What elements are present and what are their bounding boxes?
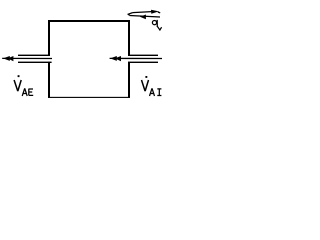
right arrow shaft [110,57,162,59]
right arrowhead barb 1 [110,56,117,61]
heat exchange loop arrow q [128,12,160,17]
control volume box [48,20,130,98]
letter V (AE) [14,80,21,91]
subscript A (AI) [150,88,155,96]
left duct top line [18,55,50,56]
subscript E (AE) [29,89,33,96]
loop bottom shaft [130,16,160,18]
left arrowhead barb 2 [8,56,14,61]
loop overshoot tick [158,11,160,14]
left duct bottom line [18,62,52,63]
subscript I (AI) [157,89,161,96]
box right wall lower segment [128,62,130,98]
left duct (exhaust opening) [18,55,52,63]
loop right arrowhead [151,10,159,14]
dot over V (AE) [18,75,20,77]
subscript A (AE) [22,88,27,96]
box left wall lower segment [48,62,50,98]
right duct top line [128,55,158,56]
right duct bottom line [128,62,158,63]
loop left arrowhead [140,15,146,20]
label q [152,20,161,30]
label V_AE [14,75,33,96]
box bottom edge [48,97,130,98]
right arrowhead barb 2 [115,56,121,61]
box right wall upper segment [128,20,130,56]
loop top shaft [133,12,152,13]
label V_AI [142,76,162,96]
left exhaust arrow V_AE [2,56,52,61]
right intake arrow V_AI [110,56,162,61]
box left wall upper segment [48,20,50,56]
dot over V (AI) [145,76,147,78]
right duct (intake opening) [128,55,158,63]
left arrowhead barb 1 [3,56,10,61]
letter V (AI) [142,80,149,91]
loop hairpin bend [128,13,132,16]
box top edge [48,20,130,22]
left arrow shaft [2,57,52,59]
